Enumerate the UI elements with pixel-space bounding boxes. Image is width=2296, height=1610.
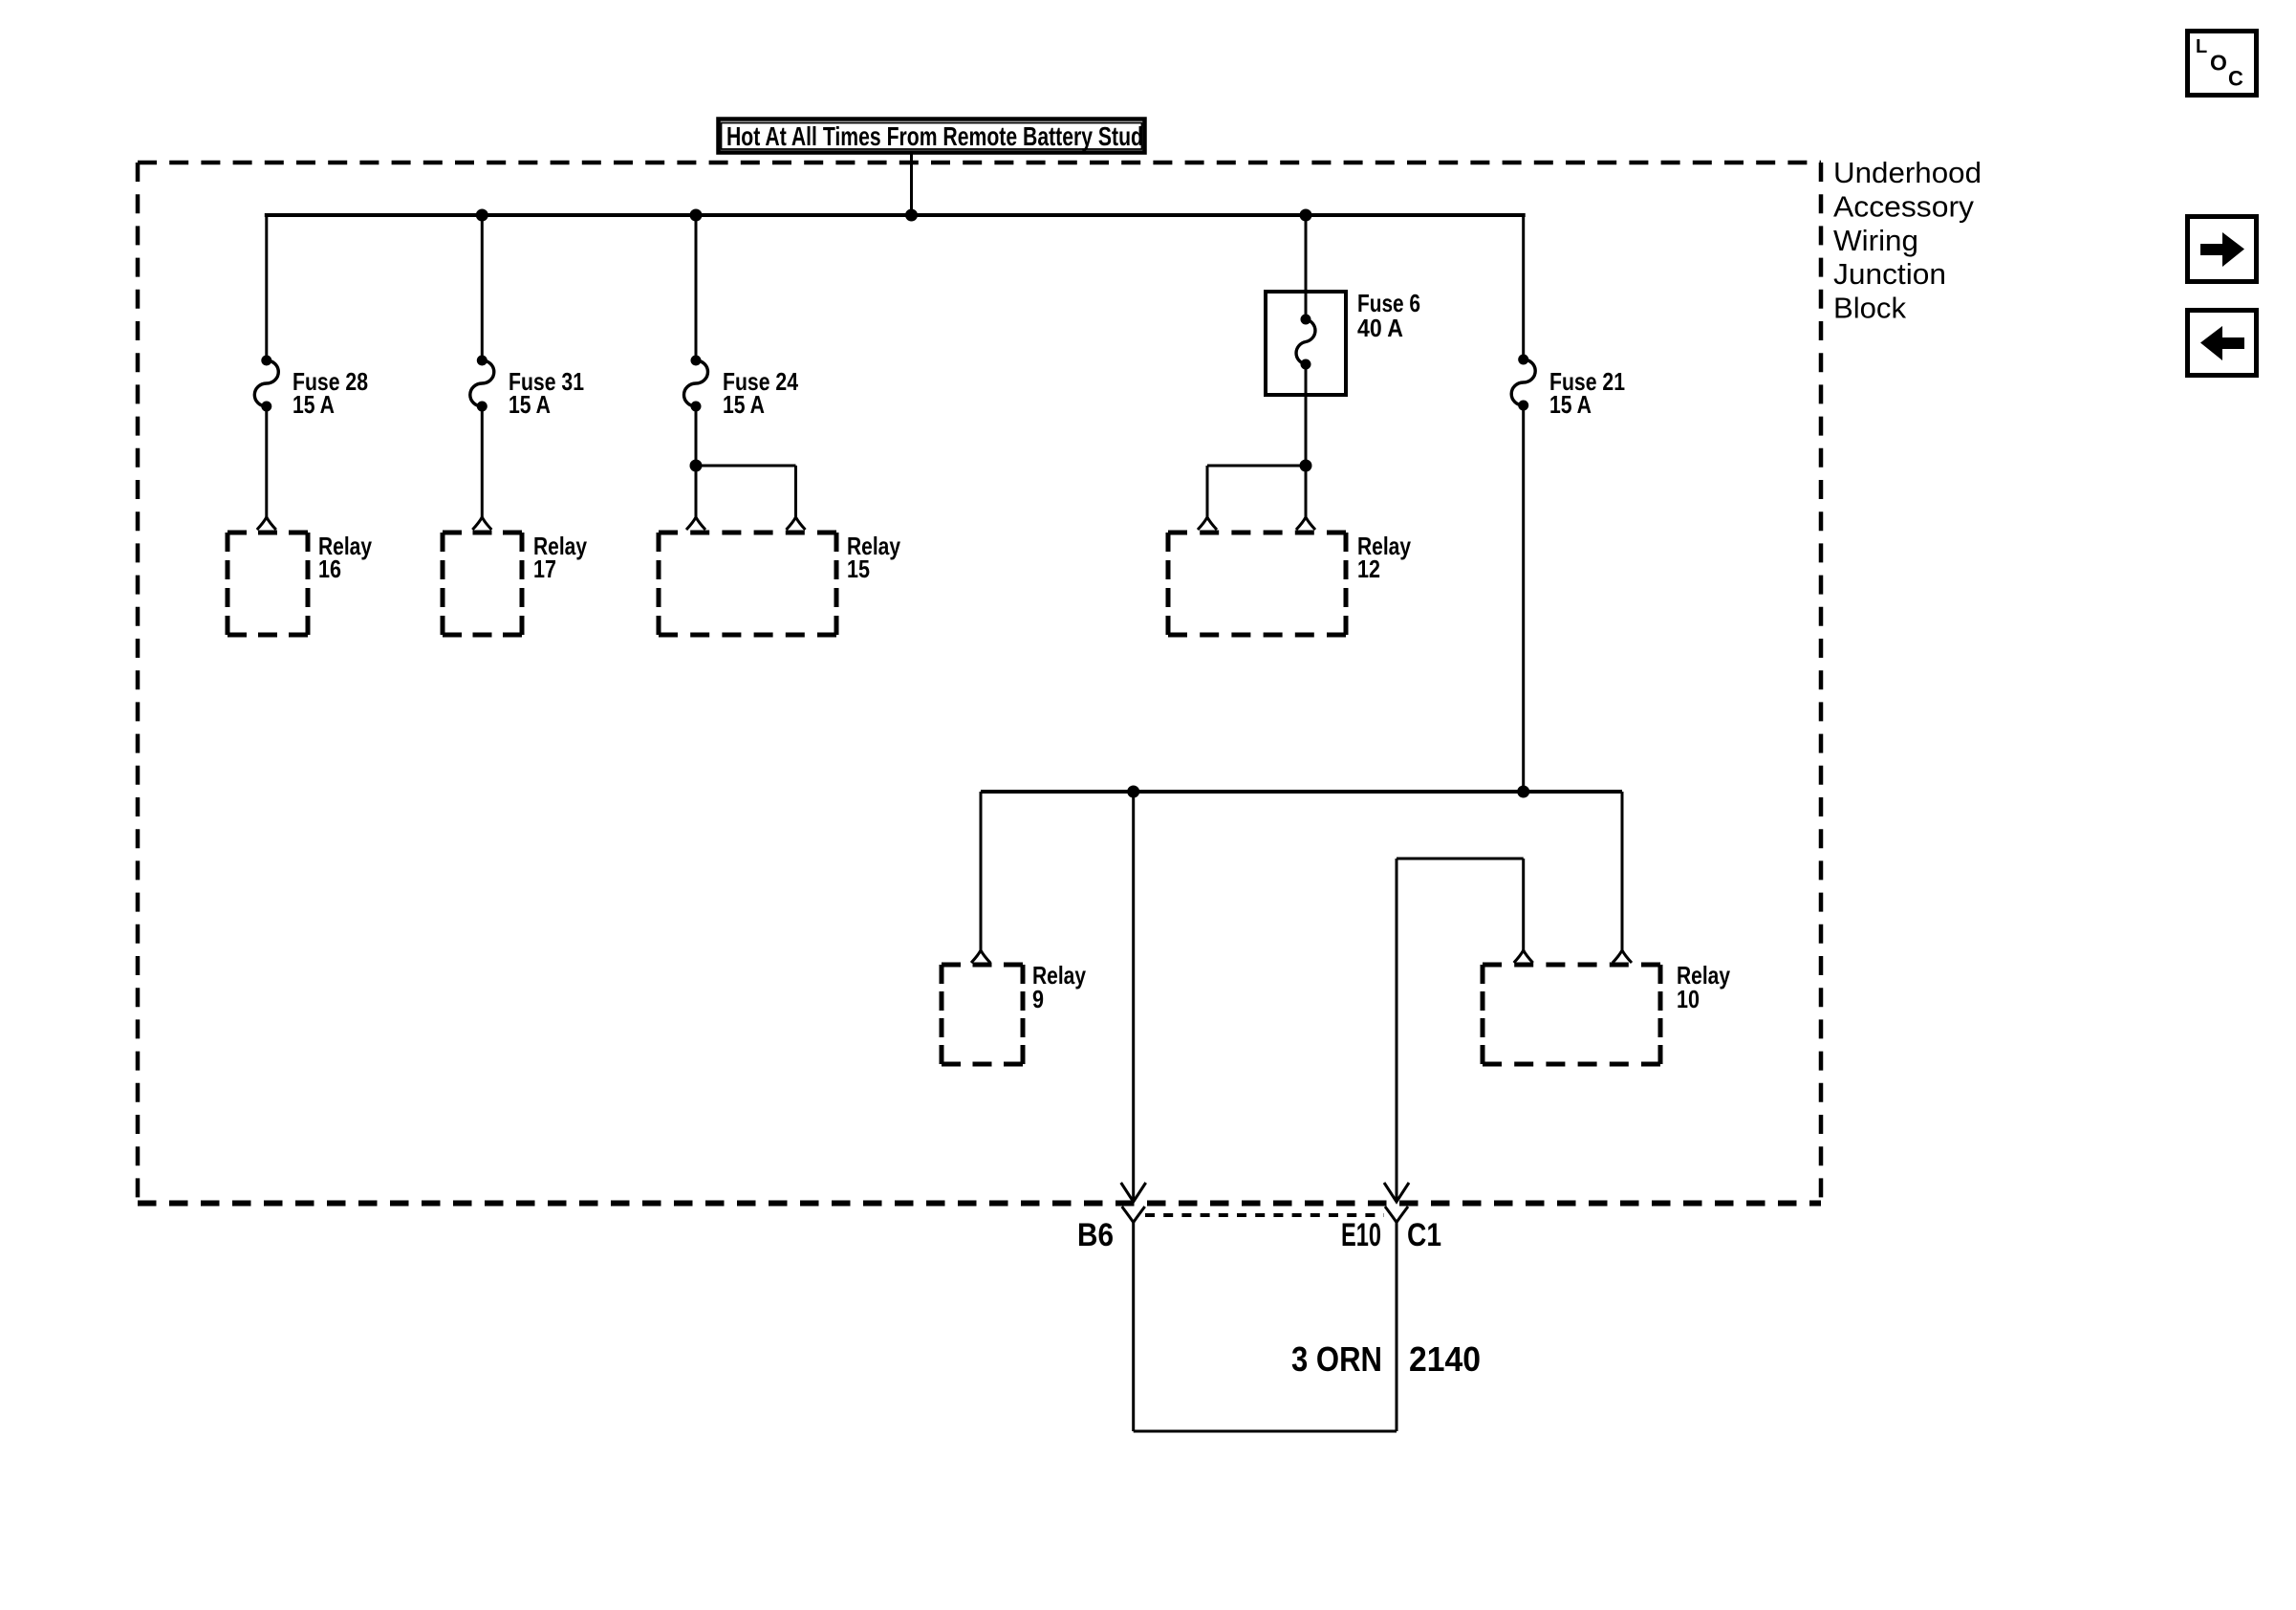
svg-text:15 A: 15 A xyxy=(1549,390,1592,419)
svg-text:Junction: Junction xyxy=(1833,257,1946,291)
wire 2140 3 ORN loop: B6 down xyxy=(1132,1222,1135,1431)
svg-text:Wiring: Wiring xyxy=(1833,224,1918,257)
svg-text:15 A: 15 A xyxy=(292,390,335,419)
terminal pin into Relay 9 xyxy=(971,950,990,963)
svg-text:Underhood: Underhood xyxy=(1833,156,1982,189)
svg-text:9: 9 xyxy=(1032,985,1044,1013)
node: bus / Fuse 24 tap xyxy=(690,209,703,222)
connector face dashed line B6-E10 xyxy=(1145,1213,1384,1217)
wire: Fuse 31 to Relay 17 xyxy=(481,406,484,517)
node: Fuse 6 output split xyxy=(1300,460,1312,472)
wire: down to Relay 12 right pin xyxy=(1305,466,1308,517)
wire: bus to Fuse 6 xyxy=(1305,215,1308,319)
wire: down to Relay 10 right pin xyxy=(1621,792,1624,950)
wire: lower distribution bus xyxy=(981,790,1622,794)
svg-text:O: O xyxy=(2210,51,2227,76)
terminal pin into Relay 15 (right) xyxy=(787,517,806,530)
arrow out at B6 xyxy=(1121,1183,1146,1202)
svg-text:L: L xyxy=(2196,36,2207,57)
svg-text:Accessory: Accessory xyxy=(1833,189,1975,223)
terminal pin into Relay 10 (left) xyxy=(1514,950,1533,963)
wire: down to Relay 15 right pin xyxy=(794,466,797,517)
terminal B6 in connector xyxy=(1122,1207,1145,1223)
svg-text:15 A: 15 A xyxy=(723,390,765,419)
wire: main power bus xyxy=(265,213,1526,217)
power source label box: Hot At All Times From Remote Battery Stud xyxy=(719,120,1145,153)
relay box Relay 9 xyxy=(942,965,1023,1064)
fuse F21 (Fuse 21 15 A) xyxy=(1511,359,1535,405)
terminal pin into Relay 10 (right) xyxy=(1613,950,1632,963)
relay box Relay 15 xyxy=(659,533,836,635)
fuse F28 (Fuse 28 15 A) xyxy=(254,360,278,406)
wire: split to Relay 15 left pin xyxy=(695,466,698,517)
svg-text:Hot At All Times From Remote B: Hot At All Times From Remote Battery Stu… xyxy=(726,121,1143,151)
wire: bus to Fuse 24 xyxy=(695,215,698,360)
terminal pin into Relay 17 xyxy=(472,517,491,530)
wire: bus to Fuse 28 xyxy=(265,215,268,360)
svg-text:15 A: 15 A xyxy=(509,390,551,419)
svg-text:2140: 2140 xyxy=(1409,1339,1481,1379)
right-arrow nav box xyxy=(2188,217,2257,282)
fuse F6 (Fuse 6 40 A) xyxy=(1296,319,1315,364)
relay box Relay 17 xyxy=(443,533,522,635)
svg-text:Block: Block xyxy=(1833,292,1906,325)
wire: bus to Fuse 31 xyxy=(481,215,484,360)
wire: Fuse 24 to split xyxy=(695,406,698,466)
terminal C1/E10 in connector xyxy=(1385,1207,1408,1223)
svg-text:C: C xyxy=(2228,67,2243,91)
wire: Fuse 28 to Relay 16 xyxy=(265,406,268,517)
svg-text:40 A: 40 A xyxy=(1357,314,1403,342)
wire: Fuse 21 down to distribution xyxy=(1522,405,1525,792)
wire: down to Relay 10 left pin xyxy=(1522,859,1525,950)
LOC reference icon box xyxy=(2188,32,2257,96)
fuse holder box around Fuse 6 xyxy=(1266,292,1346,395)
wire: down to Relay 12 left pin xyxy=(1206,466,1209,517)
left-arrow nav box xyxy=(2188,311,2257,376)
wire: riser to connector E10 xyxy=(1396,859,1398,1201)
node: Fuse 21 / distribution junction xyxy=(1517,786,1529,798)
terminal pin into Relay 16 xyxy=(257,517,276,530)
relay box Relay 12 xyxy=(1168,533,1346,635)
svg-text:B6: B6 xyxy=(1077,1217,1114,1253)
svg-text:10: 10 xyxy=(1677,985,1700,1013)
node: tap to B6 feed xyxy=(1127,786,1139,798)
node: bus / Fuse 31 tap xyxy=(476,209,488,222)
svg-text:15: 15 xyxy=(847,555,870,583)
node: bus / feed tap xyxy=(905,209,918,222)
wire: split to Relay 15 right pin xyxy=(696,465,796,468)
node: bus / Fuse 6 tap xyxy=(1300,209,1312,222)
wire: bus to Fuse 21 xyxy=(1522,215,1525,359)
wire: junction to connector B6 xyxy=(1132,792,1135,1201)
wire: E10 riser horizontal to Relay 10 left pin xyxy=(1397,858,1524,860)
terminal pin into Relay 12 (right) xyxy=(1296,517,1315,530)
svg-text:12: 12 xyxy=(1357,555,1380,583)
wire: down to Relay 9 xyxy=(980,792,983,950)
terminal pin into Relay 12 (left) xyxy=(1198,517,1217,530)
fuse F31 (Fuse 31 15 A) xyxy=(470,360,494,406)
wire: Fuse 6 to split xyxy=(1305,364,1308,466)
svg-text:16: 16 xyxy=(318,555,341,583)
wire 2140: C1 down xyxy=(1396,1222,1398,1431)
wire 2140: bottom run xyxy=(1134,1430,1397,1433)
relay box Relay 10 xyxy=(1483,965,1660,1064)
node: Fuse 24 output split xyxy=(690,460,703,472)
svg-text:C1: C1 xyxy=(1407,1217,1441,1253)
fuse F24 (Fuse 24 15 A) xyxy=(684,360,708,406)
relay box Relay 16 xyxy=(227,533,308,635)
wire from battery stud label to bus xyxy=(910,152,913,215)
svg-text:3 ORN: 3 ORN xyxy=(1291,1339,1382,1379)
svg-text:E10: E10 xyxy=(1341,1217,1381,1253)
arrow out at E10 xyxy=(1384,1183,1409,1202)
wire: split to Relay 12 left pin xyxy=(1207,465,1306,468)
Underhood Accessory Wiring Junction Block dashed boundary xyxy=(138,163,1821,1204)
terminal pin into Relay 15 (left) xyxy=(686,517,705,530)
svg-text:17: 17 xyxy=(533,555,556,583)
